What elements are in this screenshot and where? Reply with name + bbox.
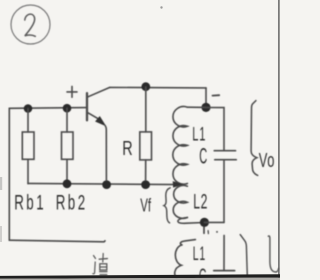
tap arrow on coil xyxy=(173,182,183,188)
transistor Q1 base bar xyxy=(86,93,88,120)
wire: top rail corner down to tank xyxy=(205,88,207,103)
left edge smudge 2 xyxy=(0,226,2,242)
resistor R xyxy=(145,87,147,132)
node dot (R bottom) xyxy=(141,180,150,189)
figure number circle 2 xyxy=(11,5,50,44)
wire: bottom-left horizontal xyxy=(9,240,105,242)
right page edge line xyxy=(278,0,279,280)
wire: collector top rail xyxy=(110,86,206,89)
inductor L1 (bottom fragment) xyxy=(180,240,195,245)
svg-text:L1: L1 xyxy=(193,244,206,265)
svg-text:R: R xyxy=(122,137,132,160)
wire: left vertical return xyxy=(8,108,10,240)
bottom scan band xyxy=(0,274,280,279)
inductor L2 (2 loops + exit) xyxy=(173,185,187,218)
plus supply mark xyxy=(67,86,77,97)
wire: base bias rail (top horizontal) xyxy=(9,107,86,110)
node dot (emitter junction) xyxy=(102,180,111,189)
node dot (tank bottom) xyxy=(200,218,209,227)
transistor emitter with arrow xyxy=(88,113,100,120)
left edge smudge 1 xyxy=(0,177,2,190)
wire: tank top to coil xyxy=(187,106,206,108)
capacitor C leads xyxy=(206,108,224,150)
node dot (Rb1 top) xyxy=(24,104,33,113)
resistor R top node dot xyxy=(141,82,150,91)
node dot (Rb2 bottom) xyxy=(63,179,72,188)
svg-text:L2: L2 xyxy=(193,189,208,213)
capacitor (bottom fragment) xyxy=(223,235,225,269)
stub below tank bottom dot xyxy=(203,227,205,234)
wire: emitter rail (bottom horizontal) xyxy=(28,183,177,184)
brace (bottom fragment) xyxy=(240,235,247,276)
capacitor C plates xyxy=(214,150,235,152)
top speck xyxy=(160,6,162,8)
svg-text:Rb1: Rb1 xyxy=(14,190,46,214)
node dot (Rb2 top) xyxy=(63,104,72,113)
node dot (tank top) xyxy=(201,103,210,112)
svg-text:Vf: Vf xyxy=(140,196,151,216)
brace for Vo xyxy=(251,101,258,176)
hook curve joining page edge (bottom right) xyxy=(268,236,278,272)
svg-text:Rb2: Rb2 xyxy=(56,190,88,214)
svg-text:Vo: Vo xyxy=(259,148,275,172)
resistor Rb2 xyxy=(66,108,68,132)
resistor Rb1 xyxy=(27,109,29,133)
inductor L1 (4 loops) xyxy=(173,107,188,185)
minus supply mark xyxy=(213,94,220,96)
brace for Vf xyxy=(164,188,170,223)
svg-text:C: C xyxy=(199,143,207,168)
wire: tank bottom to capacitor xyxy=(204,221,224,223)
hanzi caption stroke group xyxy=(93,254,108,275)
tick mark xyxy=(207,231,209,234)
transistor collector xyxy=(88,87,110,96)
